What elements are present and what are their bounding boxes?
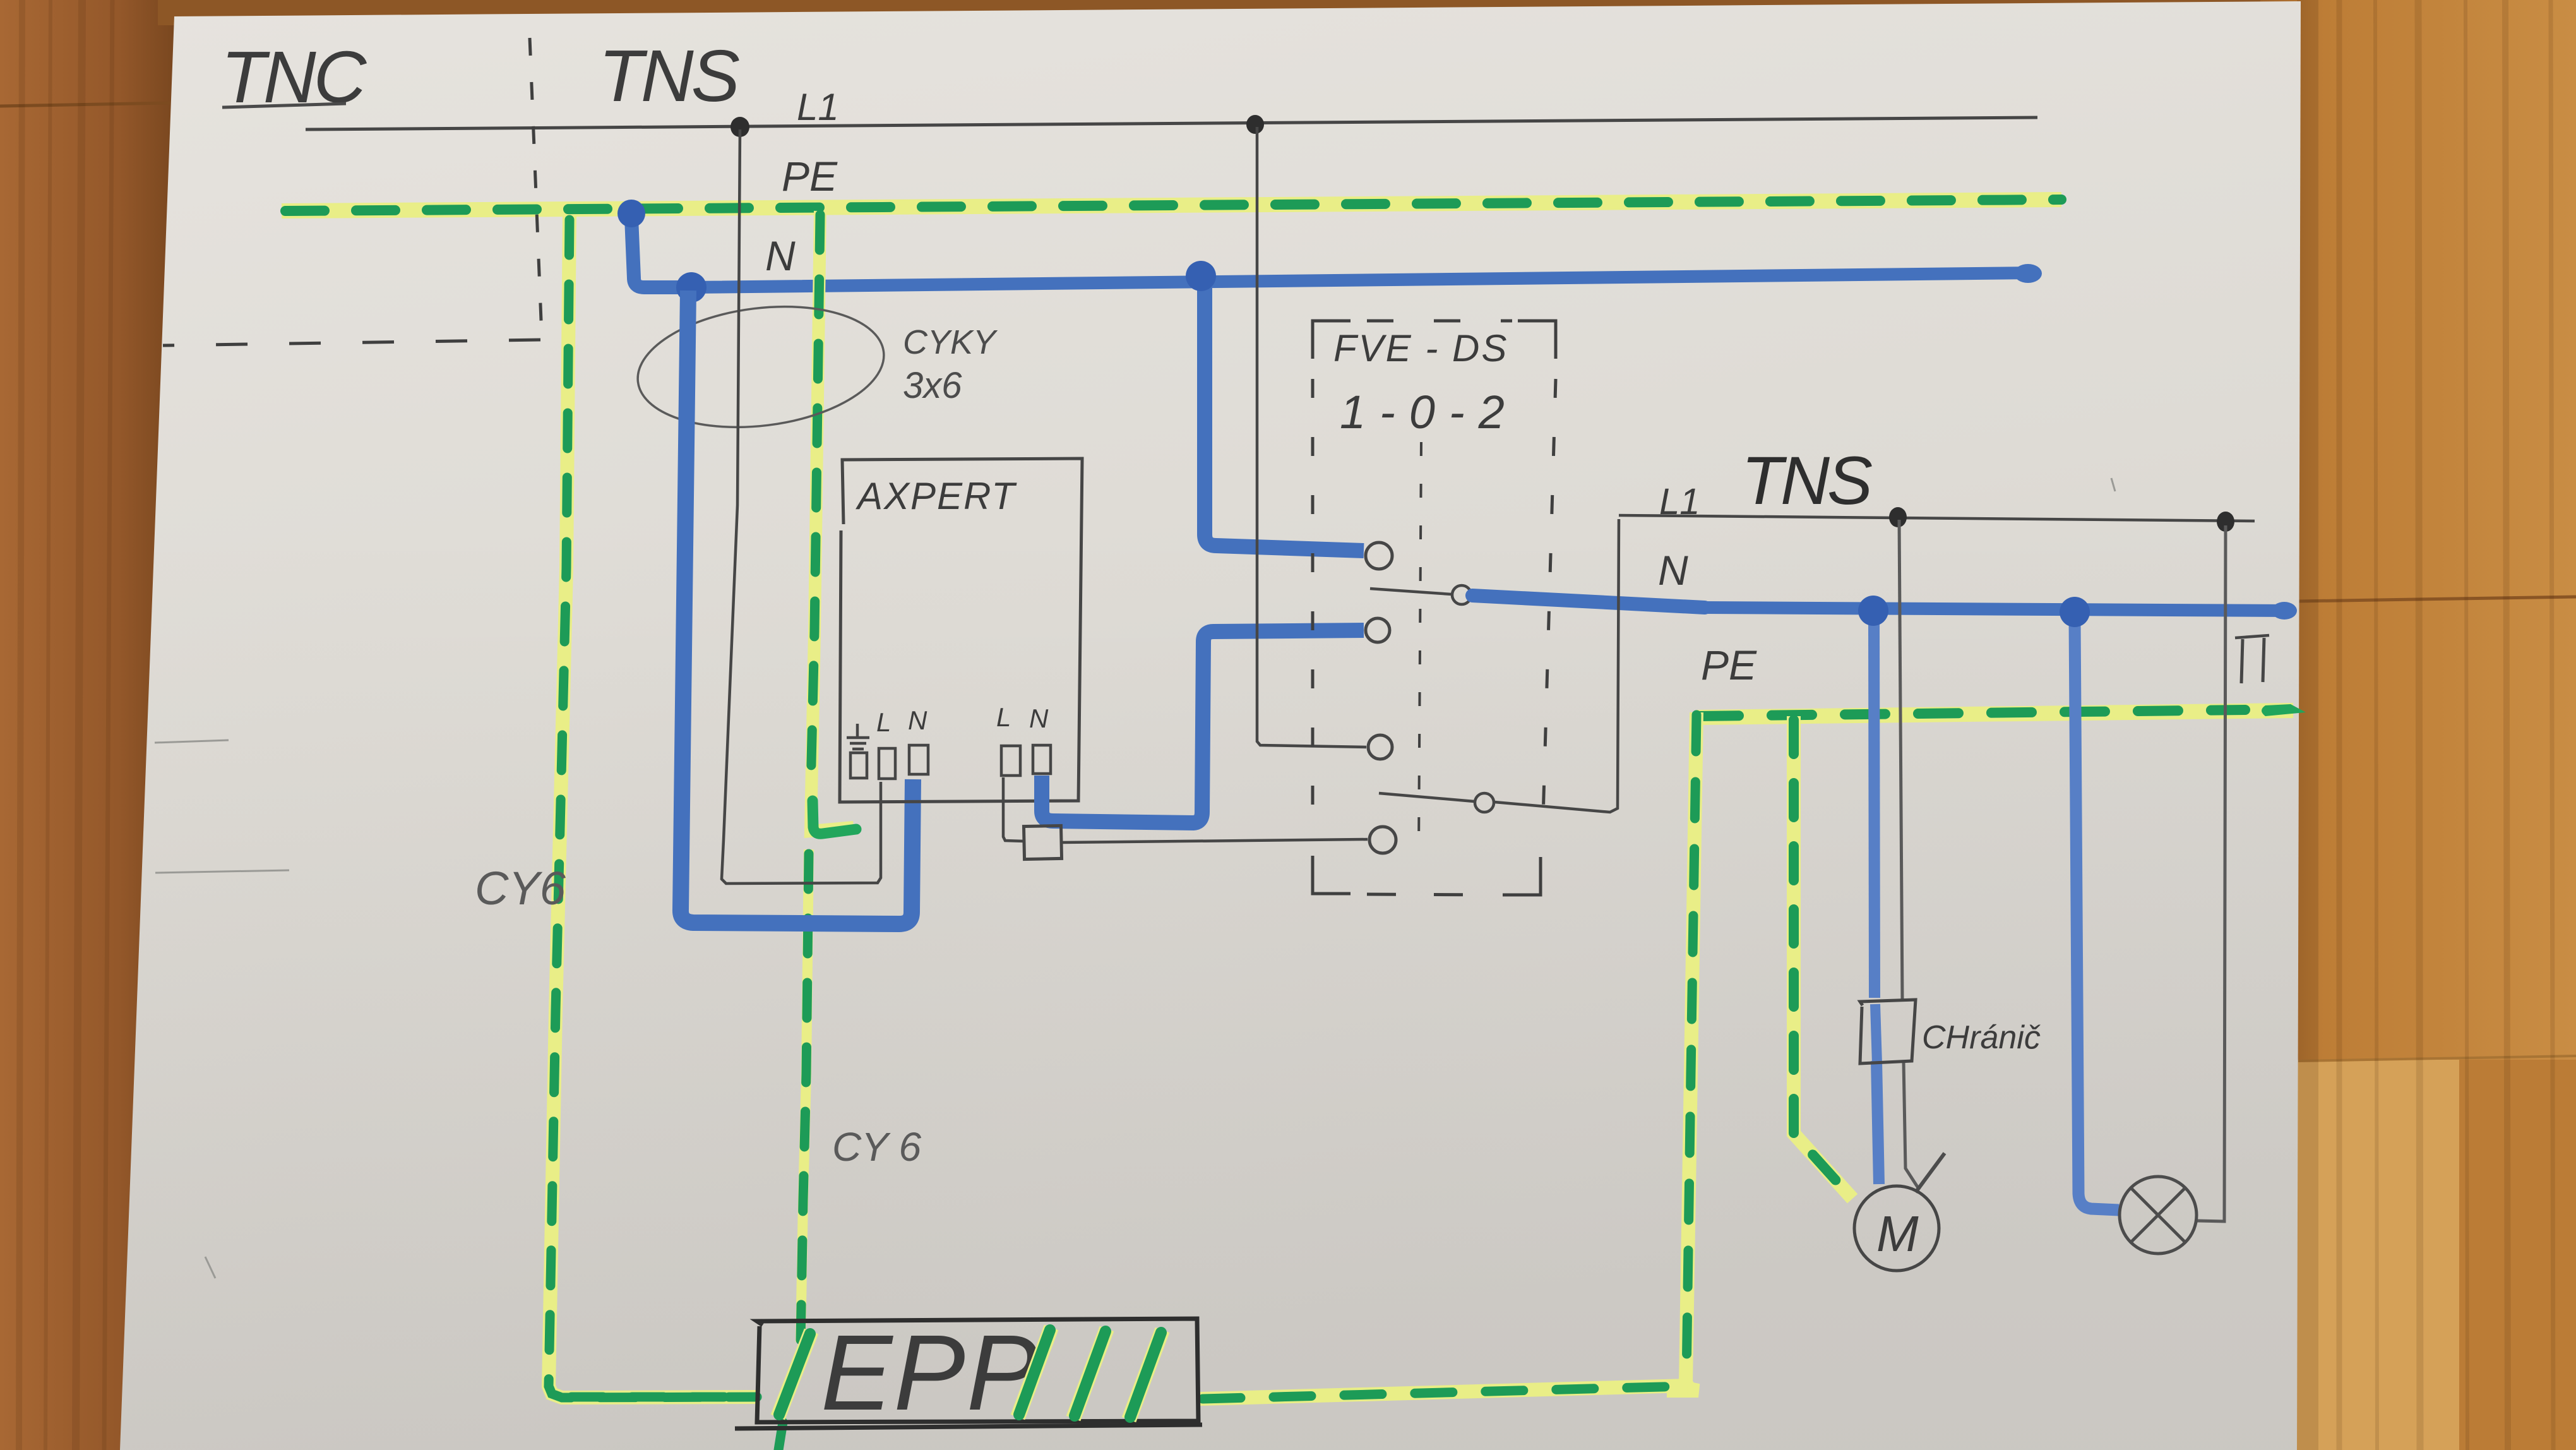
bus L1 (right) <box>1619 515 2255 521</box>
node dot on N bus at FVE feed <box>1186 261 1216 291</box>
fuse F1 <box>1023 825 1061 859</box>
label 3x6 <box>903 365 962 406</box>
wire L out of switch to right L1 bus <box>1494 519 1619 812</box>
svg-text:CYKY: CYKY <box>903 323 998 361</box>
wire PE branch to motor (green dashes) <box>1794 720 1851 1197</box>
label L1 (top) <box>797 86 839 128</box>
label L (AC in) <box>876 707 891 737</box>
svg-text:TNS: TNS <box>599 35 740 117</box>
wire PE riser CY6 (yellow) <box>549 215 757 1398</box>
label TNS (right) <box>1741 442 1872 518</box>
svg-text:L1: L1 <box>797 86 839 128</box>
wire L branch to lamp <box>2197 525 2226 1221</box>
svg-text:3x6: 3x6 <box>903 365 962 406</box>
node J6 dot on right N bus (motor) <box>1858 596 1888 626</box>
load symbol (double bar) right <box>2235 635 2269 683</box>
pin L terminal box <box>879 748 895 779</box>
contact cB (L common) <box>1475 793 1494 812</box>
EPP hatch marks (green) <box>779 1330 1161 1417</box>
pin N terminal box <box>909 745 928 774</box>
svg-text:AXPERT: AXPERT <box>856 475 1017 517</box>
node J4 on right L1 <box>1889 507 1907 527</box>
contact c3 (grid L) <box>1368 735 1392 759</box>
wire PE riser right (yellow) <box>1667 712 1698 1391</box>
label TNC <box>221 36 367 118</box>
svg-text:PE: PE <box>1701 642 1757 688</box>
switch arm N <box>1370 589 1452 594</box>
label CY 6 (lower) <box>832 1124 922 1170</box>
label AXPERT <box>856 475 1017 517</box>
wire PE riser CY6 (green dashes) <box>549 220 757 1398</box>
pin PE terminal box <box>850 753 867 778</box>
svg-text:CHránič: CHránič <box>1922 1019 2041 1056</box>
node J1 on L1 <box>730 117 749 137</box>
wire N bus top (blue) with PEN split <box>631 218 2042 287</box>
bus L1 (top) <box>306 117 2037 129</box>
svg-text:N: N <box>1658 547 1688 594</box>
svg-text:1-0-2: 1-0-2 <box>1340 386 1518 438</box>
cable ellipse CYKY 3x6 <box>631 294 891 440</box>
label PE (right) <box>1701 642 1757 688</box>
svg-text:N: N <box>1029 704 1049 733</box>
lamp E1 circle with cross <box>2120 1177 2197 1254</box>
svg-text:CY 6: CY 6 <box>832 1124 922 1170</box>
switch FVE-DS dashed enclosure <box>1313 321 1556 895</box>
ground symbol at AXPERT PE terminal <box>847 724 869 749</box>
node PEN split dot on PE bus <box>617 200 645 227</box>
wire N input blue U-loop from J3 to AXPERT N pin <box>681 291 913 924</box>
contact c1 (grid N) <box>1366 542 1392 569</box>
wire PE bottom run to EPP (yellow) <box>1200 1386 1687 1399</box>
wire PE bus top (green dashes) <box>285 200 2061 211</box>
svg-text:N: N <box>908 705 927 735</box>
node J5 on right L1 <box>2217 512 2234 532</box>
contact c2 (inverter N) <box>1366 618 1390 642</box>
wire N branch to lamp (blue) <box>2075 619 2119 1210</box>
main earthing bar EPP box <box>735 1319 1202 1429</box>
label N (AC out) <box>1029 704 1049 733</box>
contact c4 (inverter L) <box>1369 827 1396 853</box>
svg-text:CY6: CY6 <box>475 862 566 914</box>
wire PE riser 2 to AXPERT ground (yellow) <box>778 211 854 1450</box>
TNC/TNS boundary dashed line <box>163 38 542 345</box>
wire N feed (blue) from N bus to contact c1 <box>1205 281 1364 551</box>
wire AC-out L from AXPERT via fuse to contact c4 <box>1003 777 1368 842</box>
label 1-0-2 <box>1340 386 1518 438</box>
label CHranic <box>1922 1019 2041 1056</box>
wire N out of switch (blue) to right N bus <box>1472 596 2297 620</box>
svg-text:PE: PE <box>782 153 838 200</box>
wire AC-out N (blue) from AXPERT to contact c2 <box>1042 630 1364 823</box>
label N (right) <box>1658 547 1688 594</box>
node J2 on L1 <box>1246 115 1264 134</box>
svg-text:M: M <box>1876 1206 1919 1262</box>
inverter U1 AXPERT box <box>840 458 1082 802</box>
svg-text:EPP: EPP <box>821 1313 1039 1433</box>
switch arm L <box>1379 793 1474 801</box>
svg-text:L: L <box>996 702 1011 732</box>
wire PE bottom run (green dashes) <box>571 1386 1685 1399</box>
svg-text:TNS: TNS <box>1741 442 1872 518</box>
svg-text:L: L <box>876 707 891 737</box>
label CY6 <box>475 862 566 914</box>
motor M1 circle <box>1854 1186 1939 1271</box>
wire L branch to motor <box>1899 520 1945 1192</box>
label L1 (right) <box>1659 481 1700 522</box>
contact cA (N common) <box>1452 585 1471 604</box>
svg-text:N: N <box>765 232 796 279</box>
wire N branch to motor (blue) <box>1874 616 1879 1184</box>
node J3 dot on N bus <box>676 272 707 303</box>
svg-text:FVE - DS: FVE - DS <box>1333 327 1508 369</box>
label L (AC out) <box>996 702 1011 732</box>
wire L drop from J1 to AXPERT L pin <box>722 129 881 884</box>
wire PE riser right (green dashes) <box>1686 715 1696 1380</box>
label FVE - DS <box>1333 327 1508 369</box>
EPP hatch marks (yellow) <box>778 1327 1162 1420</box>
label CYKY <box>903 323 998 361</box>
label EPP <box>821 1313 1039 1433</box>
RCD chranic box <box>1860 1000 1916 1064</box>
svg-text:L1: L1 <box>1659 481 1700 522</box>
wire PE bus top (yellow highlighter base) <box>282 200 2061 211</box>
node J7 dot on right N bus (lamp) <box>2060 597 2090 627</box>
label TNS <box>599 35 740 117</box>
label PE (top) <box>782 153 838 200</box>
pin L out terminal box <box>1001 746 1020 776</box>
wire PE bus right (green dashes) <box>1698 704 2306 716</box>
faint pencil marks <box>155 478 2115 1278</box>
wire PE branch to motor (yellow) <box>1794 716 1852 1199</box>
label N (AC in) <box>908 705 927 735</box>
wire L feed from J2 to contact c3 <box>1257 127 1366 747</box>
label N (top) <box>765 232 796 279</box>
pin N out terminal box <box>1033 745 1051 774</box>
wire PE bus right (yellow) <box>1696 710 2293 717</box>
switch position axis dashed line <box>1419 442 1421 853</box>
wire PE riser 2 (green dashes) <box>778 215 856 1450</box>
